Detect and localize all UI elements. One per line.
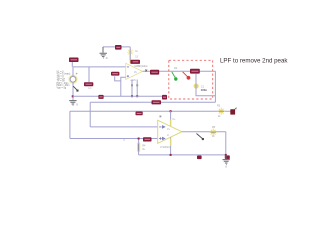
net label box under rail — [197, 156, 202, 160]
svg-text:100n: 100n — [201, 88, 208, 92]
svg-text:Vpp = 5g: Vpp = 5g — [57, 87, 67, 90]
ground G2 under source — [69, 101, 76, 106]
wire U2 output down leg — [225, 132, 227, 155]
highlight voltage source V1 — [70, 76, 77, 83]
net label box R2 value — [190, 69, 200, 74]
op-amp U2 minus mark — [159, 126, 165, 128]
wire top input net — [73, 66, 126, 68]
op-amp U2 Vplus pin — [170, 111, 172, 126]
net label text on wire A left — [99, 96, 102, 98]
green probe arrow — [172, 72, 175, 78]
pin square mark 1 — [131, 84, 133, 86]
junction x mark on output — [145, 70, 147, 72]
net label box on wire D — [143, 137, 152, 141]
op-amp U2 triangle — [158, 120, 182, 143]
net label text under wire C — [137, 112, 142, 114]
bottom rail wire — [139, 154, 226, 156]
resistor R4 body marks — [138, 144, 140, 151]
svg-text:LPF to remove 2nd peak: LPF to remove 2nd peak — [220, 57, 288, 64]
capacitor C1 plates — [195, 85, 198, 87]
wire plus input vertical — [121, 77, 126, 96]
net label text R2 value — [191, 70, 198, 72]
net label text on ground rail — [116, 46, 120, 48]
svg-text:LMx58_Norton: LMx58_Norton — [135, 65, 149, 68]
junction node at source bottom — [72, 95, 74, 97]
highlight star on vplus stub — [127, 49, 133, 56]
resistor R3 highlight star on wire C — [218, 108, 225, 115]
PULSE parameter text block — [57, 70, 71, 89]
black probe arrow head — [76, 90, 78, 92]
wire top ground rail — [103, 46, 130, 48]
junction dot at R4 top — [138, 138, 140, 140]
feedback resistor R4 branch — [138, 139, 140, 155]
wire LPF output vertical — [214, 71, 216, 102]
resistor R3 body marks — [219, 110, 225, 112]
net label box under wire C — [136, 112, 143, 116]
net label text on wire B — [153, 101, 160, 103]
net label stub Vin — [71, 62, 73, 67]
net label box plus input — [111, 72, 119, 76]
op-amp U2 pin entry marks — [160, 116, 162, 118]
svg-text:12n: 12n — [88, 87, 93, 90]
junction dot power pin 2 — [136, 95, 138, 97]
junction dot power pin 1 — [131, 95, 133, 97]
op-amp U1 triangle — [126, 63, 143, 79]
power flag tick — [235, 108, 237, 110]
power flag box at wire C end — [230, 109, 235, 114]
wire D to U2 plus input — [70, 138, 158, 140]
red probe arrow — [183, 72, 188, 77]
net label text on wire A right — [163, 96, 166, 98]
net label stub A1 — [88, 67, 90, 83]
net label box on ground rail — [115, 45, 122, 50]
op-amp U2 Vminus pin — [170, 138, 172, 155]
ground G3 stem — [225, 155, 227, 159]
wire V+ drop — [129, 47, 131, 60]
net label stub plus input — [115, 76, 121, 81]
wire E to U2 minus input — [90, 126, 158, 128]
op-amp U1 power pin 2 — [136, 80, 138, 97]
svg-text:V-: V- — [167, 134, 169, 137]
ground G3 chevron — [223, 160, 230, 165]
pin square mark 2 — [136, 84, 138, 86]
black probe arrow at source — [73, 86, 77, 90]
net label box on output — [150, 70, 159, 75]
ground G1 top — [102, 47, 104, 53]
net label text right of source — [86, 83, 92, 85]
op-amp U2 plus mark — [159, 137, 165, 139]
junction dot U2 Vplus tap — [170, 110, 172, 112]
resistor R5 body marks — [211, 131, 217, 133]
wire C left down leg — [69, 111, 71, 138]
wire B down leg — [89, 102, 91, 127]
net label box right of source — [84, 82, 93, 86]
wire source bottom to ground — [72, 82, 74, 100]
net label text on output — [151, 71, 157, 73]
highlight voltage source V1 outer glow — [69, 75, 78, 84]
ground G1 chevron — [100, 53, 107, 58]
net label text V+ of U1 — [133, 61, 139, 63]
plus mark of V1 — [76, 73, 78, 75]
green probe dot — [174, 77, 177, 80]
junction dot U2 Vminus on rail — [170, 154, 172, 156]
net label text Vin — [71, 59, 78, 61]
black probe arrow head on output — [202, 138, 204, 140]
net label box on wire B — [152, 100, 162, 104]
red probe dot — [187, 76, 191, 80]
net label text on wire D — [144, 138, 150, 140]
black probe arrow on output — [197, 134, 203, 139]
wire B LPF output to buffer — [90, 101, 215, 103]
highlight op-amp U1 vplus stub — [129, 50, 131, 64]
resistor R5 highlight star — [210, 129, 217, 136]
junction dot at rail right corner — [225, 154, 227, 156]
net label text plus input — [112, 73, 118, 75]
wire capacitor branch — [196, 74, 215, 96]
net label box V+ of U1 — [130, 60, 140, 64]
op-amp U2 Vplus pin highlight — [170, 120, 172, 127]
wire A ground reference rail — [73, 95, 167, 97]
wire source top stub — [72, 67, 74, 77]
op-amp U1 plus mark — [127, 75, 129, 77]
highlight resistor R4 — [137, 143, 140, 153]
op-amp U1 power pin V- — [131, 80, 133, 97]
highlight capacitor C1 — [194, 83, 199, 88]
LPF dashed annotation box — [169, 60, 213, 99]
wire U1 output — [143, 70, 216, 72]
op-amp U1 minus mark — [127, 66, 129, 68]
net label box Vin — [69, 58, 79, 63]
svg-text:LT1001A: LT1001A — [160, 146, 170, 149]
net label box on wire A left — [98, 95, 103, 99]
net label box under rail corner — [225, 155, 230, 159]
svg-text:R2: R2 — [174, 66, 178, 70]
op-amp U2 Vminus pin highlight — [170, 139, 172, 147]
wire U2 output — [182, 131, 226, 133]
voltage source V1 — [70, 76, 76, 82]
net label box on wire A right — [162, 95, 167, 100]
svg-text:eoVo: eoVo — [131, 80, 137, 82]
svg-text:V+: V+ — [172, 118, 176, 121]
wire C power net — [70, 110, 231, 112]
